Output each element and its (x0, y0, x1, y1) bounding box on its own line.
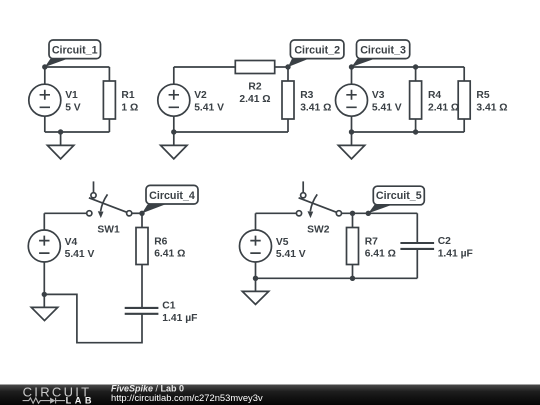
ground circuit 3 (338, 132, 364, 159)
wire top rail to SW1 (44, 212, 86, 214)
svg-text:5.41 V: 5.41 V (194, 102, 224, 113)
wire R1 top stub (108, 67, 110, 81)
capacitor C1 (125, 308, 159, 314)
ground circuit 1 (47, 132, 73, 159)
svg-text:R2: R2 (248, 82, 261, 93)
ground circuit 5 (242, 278, 268, 304)
voltage source V2 (158, 84, 190, 116)
svg-text:V3: V3 (372, 90, 385, 101)
wire R6 top stub (141, 213, 143, 227)
voltage source V3 (336, 84, 368, 116)
svg-text:R3: R3 (300, 90, 313, 101)
svg-text:2.41 Ω: 2.41 Ω (428, 102, 459, 113)
svg-text:SW1: SW1 (97, 224, 120, 235)
node circuit 5 R7 bottom junction (350, 276, 355, 281)
wire V1 bottom stub (44, 116, 46, 132)
wire SW1 to node (132, 212, 142, 214)
wire V5 bottom stub (255, 262, 257, 278)
wire R3 top stub (287, 67, 289, 81)
svg-text:5.41 V: 5.41 V (276, 249, 306, 260)
label R4 2.41 Ω (428, 90, 459, 113)
wire V4 bottom stub (43, 262, 45, 295)
wire C2 bottom stub (416, 249, 418, 278)
label V1 5 V (65, 90, 81, 113)
node circuit 1 callout anchor (42, 64, 47, 69)
wire top rail circuit 3 (352, 66, 465, 68)
label R6 6.41 Ω (154, 236, 185, 259)
svg-text:R4: R4 (428, 90, 441, 101)
logo resistor zigzag and diode (23, 398, 65, 404)
svg-text:5.41 V: 5.41 V (372, 102, 402, 113)
label V5 5.41 V (276, 237, 306, 260)
wire R6 to C1 (141, 265, 143, 308)
svg-text:V4: V4 (65, 237, 78, 248)
wire V4 top stub (43, 213, 45, 230)
wire V3 top stub (351, 67, 353, 84)
wire R4 top stub (415, 67, 417, 81)
svg-text:6.41 Ω: 6.41 Ω (365, 249, 396, 260)
wire V5 top stub (255, 213, 257, 230)
switch SW1 (87, 181, 132, 218)
resistor R4 (410, 81, 422, 119)
wire V3 bottom stub (351, 116, 353, 132)
resistor R1 (103, 81, 115, 119)
wire C2 top stub (416, 213, 418, 242)
resistor R6 (136, 228, 148, 265)
svg-text:Circuit_3: Circuit_3 (360, 45, 406, 57)
node circuit 3 ground junction (349, 129, 354, 134)
svg-text:3.41 Ω: 3.41 Ω (476, 102, 507, 113)
label R7 6.41 Ω (365, 236, 396, 259)
wire R5 bottom stub (463, 119, 465, 132)
label R1 1 Ω (121, 90, 138, 113)
wire R1 bottom stub (108, 119, 110, 132)
svg-text:2.41 Ω: 2.41 Ω (239, 94, 270, 105)
svg-text:C1: C1 (162, 301, 175, 312)
wire bottom rail circuit 3 (352, 131, 465, 133)
label V2 5.41 V (194, 90, 224, 113)
wire top rail to SW2 (256, 212, 297, 214)
svg-text:Circuit_4: Circuit_4 (149, 190, 195, 202)
node circuit 4 callout anchor (139, 211, 144, 216)
wire R7 top stub (352, 213, 354, 227)
node circuit 2 callout anchor (285, 64, 290, 69)
wire bottom rail circuit 5 (256, 277, 418, 279)
voltage source V1 (29, 84, 61, 116)
logo diode triangle (50, 398, 55, 404)
wire R7 bottom stub (352, 265, 354, 279)
callout Circuit_3 (352, 40, 410, 67)
resistor R5 (458, 81, 470, 119)
svg-text:5 V: 5 V (65, 102, 81, 113)
wire top rail to R2 (174, 66, 236, 68)
node circuit 3 callout anchor (349, 64, 354, 69)
svg-text:V2: V2 (194, 90, 207, 101)
label V3 5.41 V (372, 90, 402, 113)
label R2 2.41 Ω (239, 82, 270, 106)
svg-text:V5: V5 (276, 237, 289, 248)
svg-text:1 Ω: 1 Ω (121, 102, 138, 113)
svg-text:1.41 µF: 1.41 µF (162, 313, 197, 324)
label R5 3.41 Ω (476, 90, 507, 113)
node circuit 5 callout anchor (366, 211, 371, 216)
footer bar (0, 385, 540, 405)
wire R2 right to node (275, 66, 288, 68)
svg-text:C2: C2 (438, 236, 451, 247)
resistor R7 (347, 228, 359, 265)
wire SW2 to C2 branch (342, 212, 418, 214)
svg-text:Circuit_5: Circuit_5 (376, 190, 422, 202)
svg-text:R5: R5 (476, 90, 489, 101)
label C1 1.41 µF (162, 301, 197, 325)
node circuit 5 ground junction (253, 276, 258, 281)
svg-text:3.41 Ω: 3.41 Ω (300, 102, 331, 113)
svg-text:R1: R1 (121, 90, 134, 101)
voltage source V5 (240, 230, 272, 262)
svg-text:http://circuitlab.com/c272n53m: http://circuitlab.com/c272n53mvey3v (111, 392, 263, 403)
wire bottom rail circuit 1 (45, 131, 110, 133)
voltage source V4 (28, 230, 60, 262)
wire R4 bottom stub (415, 119, 417, 132)
wire bottom rail circuit 2 (174, 131, 288, 133)
callout Circuit_4 (142, 185, 198, 213)
label V4 5.41 V (65, 237, 95, 260)
node circuit 4 ground junction (42, 292, 47, 297)
svg-text:R6: R6 (154, 236, 167, 247)
node circuit 1 ground junction (58, 129, 63, 134)
callout Circuit_2 (288, 40, 344, 67)
node circuit 2 ground junction (171, 129, 176, 134)
ground circuit 2 (161, 132, 187, 159)
node circuit 5 R7 junction (350, 211, 355, 216)
label R3 3.41 Ω (300, 90, 331, 113)
svg-text:1.41 µF: 1.41 µF (438, 248, 473, 259)
node circuit 3 top R4 junction (413, 64, 418, 69)
switch SW2 (296, 181, 341, 218)
svg-text:Circuit_2: Circuit_2 (294, 45, 340, 57)
svg-text:R7: R7 (365, 236, 378, 247)
ground circuit 4 (31, 294, 57, 320)
callout Circuit_1 (45, 40, 101, 67)
wire V2 bottom stub (173, 116, 175, 132)
svg-text:V1: V1 (65, 90, 78, 101)
resistor R3 (282, 81, 294, 119)
svg-text:LAB: LAB (66, 395, 95, 405)
wire R5 top stub (463, 67, 465, 81)
wire V2 top stub (173, 67, 175, 84)
capacitor C2 (400, 243, 434, 249)
svg-text:Circuit_1: Circuit_1 (52, 45, 98, 57)
wire V1 top stub (44, 67, 46, 84)
label C2 1.41 µF (438, 236, 473, 259)
wire C1 bottom return (44, 294, 142, 342)
wire top rail circuit 1 (45, 66, 110, 68)
resistor R2 (horizontal) (235, 61, 274, 74)
svg-text:5.41 V: 5.41 V (65, 249, 95, 260)
callout Circuit_5 (368, 186, 424, 213)
wire R3 bottom stub (287, 119, 289, 132)
svg-text:6.41 Ω: 6.41 Ω (154, 249, 185, 260)
svg-text:SW2: SW2 (307, 224, 330, 235)
node circuit 3 bottom R4 junction (413, 129, 418, 134)
